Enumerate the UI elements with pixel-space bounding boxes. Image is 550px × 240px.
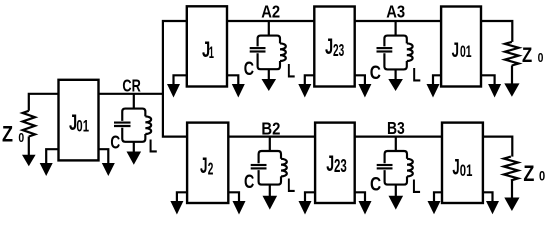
inverter J01 (top output) box	[441, 7, 481, 87]
inductor L (B3) coil	[407, 159, 413, 177]
ground (J01 (top output) right)	[488, 84, 501, 98]
svg-text:Z: Z	[522, 43, 532, 67]
svg-text:C: C	[244, 59, 254, 80]
ground (source Z0)	[22, 155, 36, 167]
ground (J1 left)	[167, 84, 180, 98]
wire B3 top stub	[395, 137, 397, 151]
ground (J01 (bottom output) right)	[486, 201, 499, 214]
wire A3 ground stem	[395, 69, 397, 80]
resonator B2 loop	[259, 151, 281, 185]
capacitor C (B2) plates	[251, 164, 267, 166]
svg-text:2: 2	[208, 158, 214, 178]
svg-text:C: C	[110, 132, 120, 152]
svg-text:CR: CR	[122, 76, 141, 96]
wire J23 (bottom) right ground stub	[355, 192, 365, 202]
svg-text:C: C	[370, 63, 381, 84]
wire bottom load Z0 to ground	[511, 180, 513, 198]
ground (A2)	[262, 79, 277, 91]
wire A2 ground stem	[268, 69, 270, 80]
svg-text:01: 01	[460, 161, 473, 180]
svg-text:C: C	[370, 175, 381, 196]
inverter J01 (input) box	[59, 80, 99, 161]
wire J01 (input) left ground stub	[46, 149, 58, 164]
wire B2 ground stem	[269, 185, 271, 197]
ground (CR)	[127, 152, 142, 165]
svg-text:J: J	[452, 38, 459, 62]
capacitor C (A2) plates	[250, 47, 266, 49]
wire J23 (bottom) left ground stub	[305, 192, 315, 202]
wire J01 (top output) right ground stub	[481, 75, 495, 85]
inverter J2 box	[187, 123, 228, 203]
wire A3 top stub	[395, 21, 397, 36]
inverter J01 (bottom output) box	[442, 123, 483, 203]
wire J23 (top) left ground stub	[305, 75, 315, 85]
wire top load Z0 to ground	[511, 66, 513, 85]
svg-text:1: 1	[209, 43, 214, 62]
capacitor C (CR) plates	[114, 122, 131, 124]
ground (J01 (input) right)	[102, 163, 115, 176]
wire J01 to top load Z0	[481, 21, 512, 42]
inductor L (A2) coil	[280, 43, 286, 61]
svg-text:C: C	[244, 172, 254, 193]
wire J01 (bottom output) right ground stub	[483, 192, 493, 202]
ground (B2)	[263, 196, 278, 210]
wire J01 (input) right ground stub	[99, 149, 109, 164]
svg-text:J: J	[452, 155, 459, 180]
wire CR top stub	[133, 94, 135, 109]
ground (J01 (bottom output) left)	[428, 201, 441, 214]
wire J01 to bottom load Z0	[483, 137, 512, 157]
wire J2 to J23 (node B2)	[228, 136, 315, 138]
svg-text:01: 01	[460, 43, 472, 61]
ground (top load Z0)	[504, 83, 519, 96]
capacitor C (B3) plates	[377, 164, 393, 166]
wire J1 to J23 (node A2)	[227, 20, 314, 22]
resonator B3 loop	[385, 151, 407, 185]
capacitor C (A3) plates	[377, 47, 393, 49]
svg-text:L: L	[149, 137, 158, 157]
svg-text:A2: A2	[261, 1, 280, 21]
resonator A3 loop	[384, 36, 406, 70]
svg-text:L: L	[287, 62, 295, 83]
resonator CR loop	[122, 109, 145, 142]
ground (J23 (bottom) right)	[359, 201, 372, 215]
svg-text:Z: Z	[2, 121, 13, 146]
svg-text:L: L	[412, 65, 421, 86]
wire node CR (J01 out to branch split)	[99, 93, 163, 95]
inductor L (B2) coil	[281, 159, 287, 177]
wire source Z0 to ground	[28, 137, 30, 156]
svg-text:J: J	[325, 34, 333, 59]
svg-text:L: L	[287, 176, 295, 197]
svg-text:0: 0	[18, 130, 24, 145]
ground (J01 (input) left)	[40, 163, 53, 176]
resistor Z0 (bottom load)	[504, 157, 518, 181]
wire B2 top stub	[269, 137, 271, 151]
wire source Z0 to J01 input	[29, 94, 59, 111]
svg-text:23: 23	[334, 156, 347, 176]
wire J23 to J01 (node A3)	[355, 20, 441, 22]
svg-text:J: J	[200, 153, 208, 178]
ground (J23 (top) right)	[358, 84, 371, 98]
ground (J2 right)	[233, 201, 246, 215]
wire A2 top stub	[268, 21, 270, 36]
svg-text:0: 0	[538, 50, 544, 65]
resonator A2 loop	[258, 36, 280, 70]
ground (J23 (top) left)	[298, 84, 311, 98]
wire J23 to J01 (node B3)	[355, 136, 442, 138]
inductor L (CR) coil	[145, 116, 151, 134]
inverter J23 (bottom) box	[315, 123, 355, 203]
svg-text:B3: B3	[387, 118, 405, 138]
ground (J1 right)	[232, 84, 245, 98]
wire J01 (bottom output) left ground stub	[434, 192, 442, 202]
svg-text:J: J	[326, 151, 334, 176]
svg-text:01: 01	[76, 117, 89, 136]
svg-text:A3: A3	[386, 2, 405, 22]
inverter J1 box	[187, 6, 227, 86]
svg-text:Z: Z	[523, 161, 534, 186]
ground (bottom load Z0)	[504, 198, 519, 212]
svg-text:0: 0	[539, 169, 545, 184]
svg-text:L: L	[412, 177, 421, 198]
wire J1 right ground stub	[227, 75, 238, 85]
wire J01 (top output) left ground stub	[433, 75, 441, 85]
wire J2 left ground stub	[177, 192, 187, 202]
wire branch split vertical	[163, 21, 187, 137]
ground (J01 (top output) left)	[427, 84, 440, 98]
svg-text:B2: B2	[261, 119, 280, 139]
inductor L (A3) coil	[407, 43, 413, 61]
wire J23 (top) right ground stub	[355, 75, 365, 85]
svg-text:23: 23	[333, 40, 344, 60]
wire J1 left ground stub	[174, 75, 187, 85]
wire J2 right ground stub	[228, 192, 239, 202]
resistor Z0 (source)	[23, 111, 35, 137]
resistor Z0 (top load)	[505, 42, 519, 66]
ground (J23 (bottom) left)	[299, 201, 312, 215]
inverter J23 (top) box	[314, 7, 354, 87]
ground (A3)	[388, 79, 403, 91]
wire B3 ground stem	[395, 185, 397, 197]
ground (J2 left)	[170, 201, 183, 215]
ground (B3)	[389, 196, 404, 210]
wire CR ground stem	[133, 142, 135, 153]
